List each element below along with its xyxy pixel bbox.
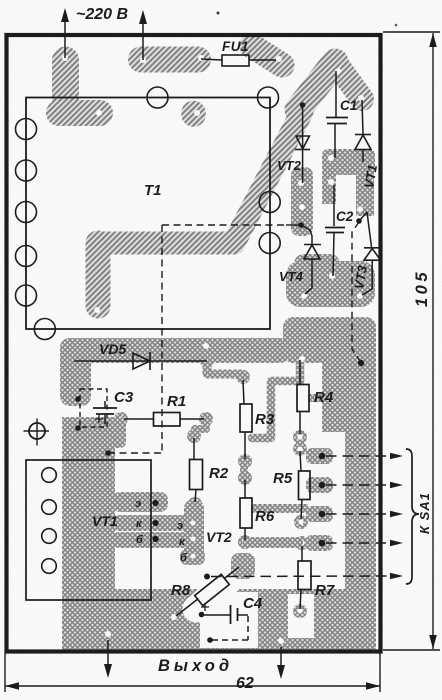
pad R5 top	[293, 442, 307, 456]
trace: VT2 base stub	[180, 549, 205, 565]
trace: elbow R1 right pad to R2 top pad	[195, 420, 206, 437]
trace: row VT1-b to VT2-k	[112, 532, 204, 548]
trace: R4 to plane stub	[308, 394, 324, 402]
pad R6 top	[238, 471, 252, 485]
arrow row 5 from R8	[211, 575, 392, 578]
trace: VD5 band left arm	[60, 338, 91, 406]
capacitor C4	[201, 603, 248, 643]
trace: SA1 arrow stub 4	[306, 535, 333, 551]
resistor R3	[240, 380, 252, 459]
diode VT3 (rectifier)	[356, 212, 380, 295]
curly brace K SA1	[406, 449, 419, 584]
trace: R8 top pad blob	[231, 553, 255, 579]
pad R7 bottom	[293, 604, 307, 618]
trace: right plane neck	[283, 317, 376, 363]
arrow row 1	[326, 455, 392, 457]
dimension 62	[5, 653, 380, 692]
pad R2 bottom	[188, 497, 202, 511]
trace: pad pill inside T1 top	[181, 113, 206, 115]
trace: row to VT1 emitter	[112, 492, 168, 512]
trace: fuse right diagonal pad	[252, 46, 282, 65]
pad R7 top	[295, 536, 309, 550]
resistor R1	[124, 413, 204, 427]
trace: strip R6 bottom to pads column	[243, 537, 303, 548]
resistor R7	[298, 546, 311, 609]
arrow row 2	[326, 484, 392, 486]
trace: bottom-left mass	[83, 589, 262, 651]
trace: VT3/VT4 pads blob	[286, 261, 375, 307]
pad R4 top	[293, 350, 307, 364]
dash line VT3 to plane dot	[352, 222, 360, 361]
trace: left column	[62, 417, 115, 651]
white pocket around R7 lead	[288, 594, 314, 638]
mains arrow 1	[61, 8, 147, 60]
pad R3 bottom	[238, 454, 252, 468]
T1 pin circles left	[16, 119, 37, 140]
pad R1 left	[114, 412, 128, 426]
trace: bottom-middle mass	[258, 589, 345, 651]
diode VT1 (rectifier)	[355, 100, 371, 162]
dashed outline vertical x162	[162, 224, 286, 226]
dimension 105	[383, 32, 440, 650]
trace: R4 top elbow down to R3 bottom	[252, 360, 300, 438]
trace: C1/C2 H-block	[322, 149, 375, 175]
transistor VT1 outline box	[26, 460, 159, 600]
pad R1 right	[199, 412, 213, 426]
trace: right plane upper	[322, 340, 376, 432]
pad VD5 right	[200, 354, 214, 368]
capacitor C2	[325, 185, 345, 276]
resistor R8 (diagonal)	[176, 567, 239, 617]
white pocket around R8	[196, 571, 240, 609]
pad R5 bottom	[294, 515, 308, 529]
resistor R2	[190, 438, 203, 502]
trace: top mains pill	[141, 47, 198, 73]
trace: SA1 arrow stub 2	[306, 477, 333, 493]
diode VT4 (rectifier)	[298, 222, 321, 294]
T1 pin circles top	[147, 87, 168, 108]
pad R4 bottom	[293, 430, 307, 444]
arrow row 4	[326, 542, 392, 544]
VT1 pin dots	[152, 500, 158, 506]
capacitor C3 (dashed outline)	[75, 389, 117, 431]
trace: top-right blob at C1	[298, 62, 335, 110]
diode VT2 (rectifier)	[295, 102, 310, 183]
pad R3 top	[236, 370, 250, 384]
pad R2 top	[187, 429, 201, 443]
diode VD5	[74, 352, 207, 370]
trace: row VT1-k to VT2-e	[112, 515, 204, 531]
trace: top-left L to mains pad	[52, 60, 79, 112]
board outline	[7, 35, 381, 652]
T1 pin circle bottom	[34, 319, 55, 340]
pad R8 top	[233, 559, 247, 573]
SA1 dashed arrows	[211, 453, 403, 580]
white pocket around C4	[200, 592, 258, 648]
trace: VT2 vertical strip	[291, 167, 313, 236]
resistor R5	[299, 451, 311, 519]
arrow row 3	[326, 513, 392, 515]
scan speck dots	[217, 12, 220, 15]
wire dot VT4 to dashed box	[105, 222, 364, 456]
trace: column top-right corner at R1 pad	[62, 417, 126, 448]
resistor R6	[240, 480, 252, 540]
trace: right plane lower	[345, 425, 376, 651]
resistor R4	[297, 360, 309, 434]
T1 pin circles right	[259, 192, 280, 213]
trace: T1 big diagonal + horizontal	[98, 112, 302, 243]
fuse FU1	[222, 55, 249, 66]
trace: SA1 arrow stub 1	[306, 448, 333, 464]
trace: elbow VD5 pad to R3	[207, 362, 243, 378]
output arrows (Vyhod)	[104, 640, 285, 679]
pad R6 bottom	[238, 535, 252, 549]
capacitor C1	[326, 71, 348, 158]
trace: R2 bottom to VT2 column	[184, 500, 204, 565]
trace: VD5 band	[60, 338, 290, 363]
mains arrow 2	[142, 22, 144, 60]
trace: strip R6 to R5 bottom	[251, 504, 308, 513]
transformer T1 outline	[26, 98, 270, 330]
mounting hole crosshair	[29, 423, 45, 439]
trace: R3 bottom to R6 top	[240, 461, 248, 477]
trace: SA1 arrow stub 3	[306, 506, 333, 522]
